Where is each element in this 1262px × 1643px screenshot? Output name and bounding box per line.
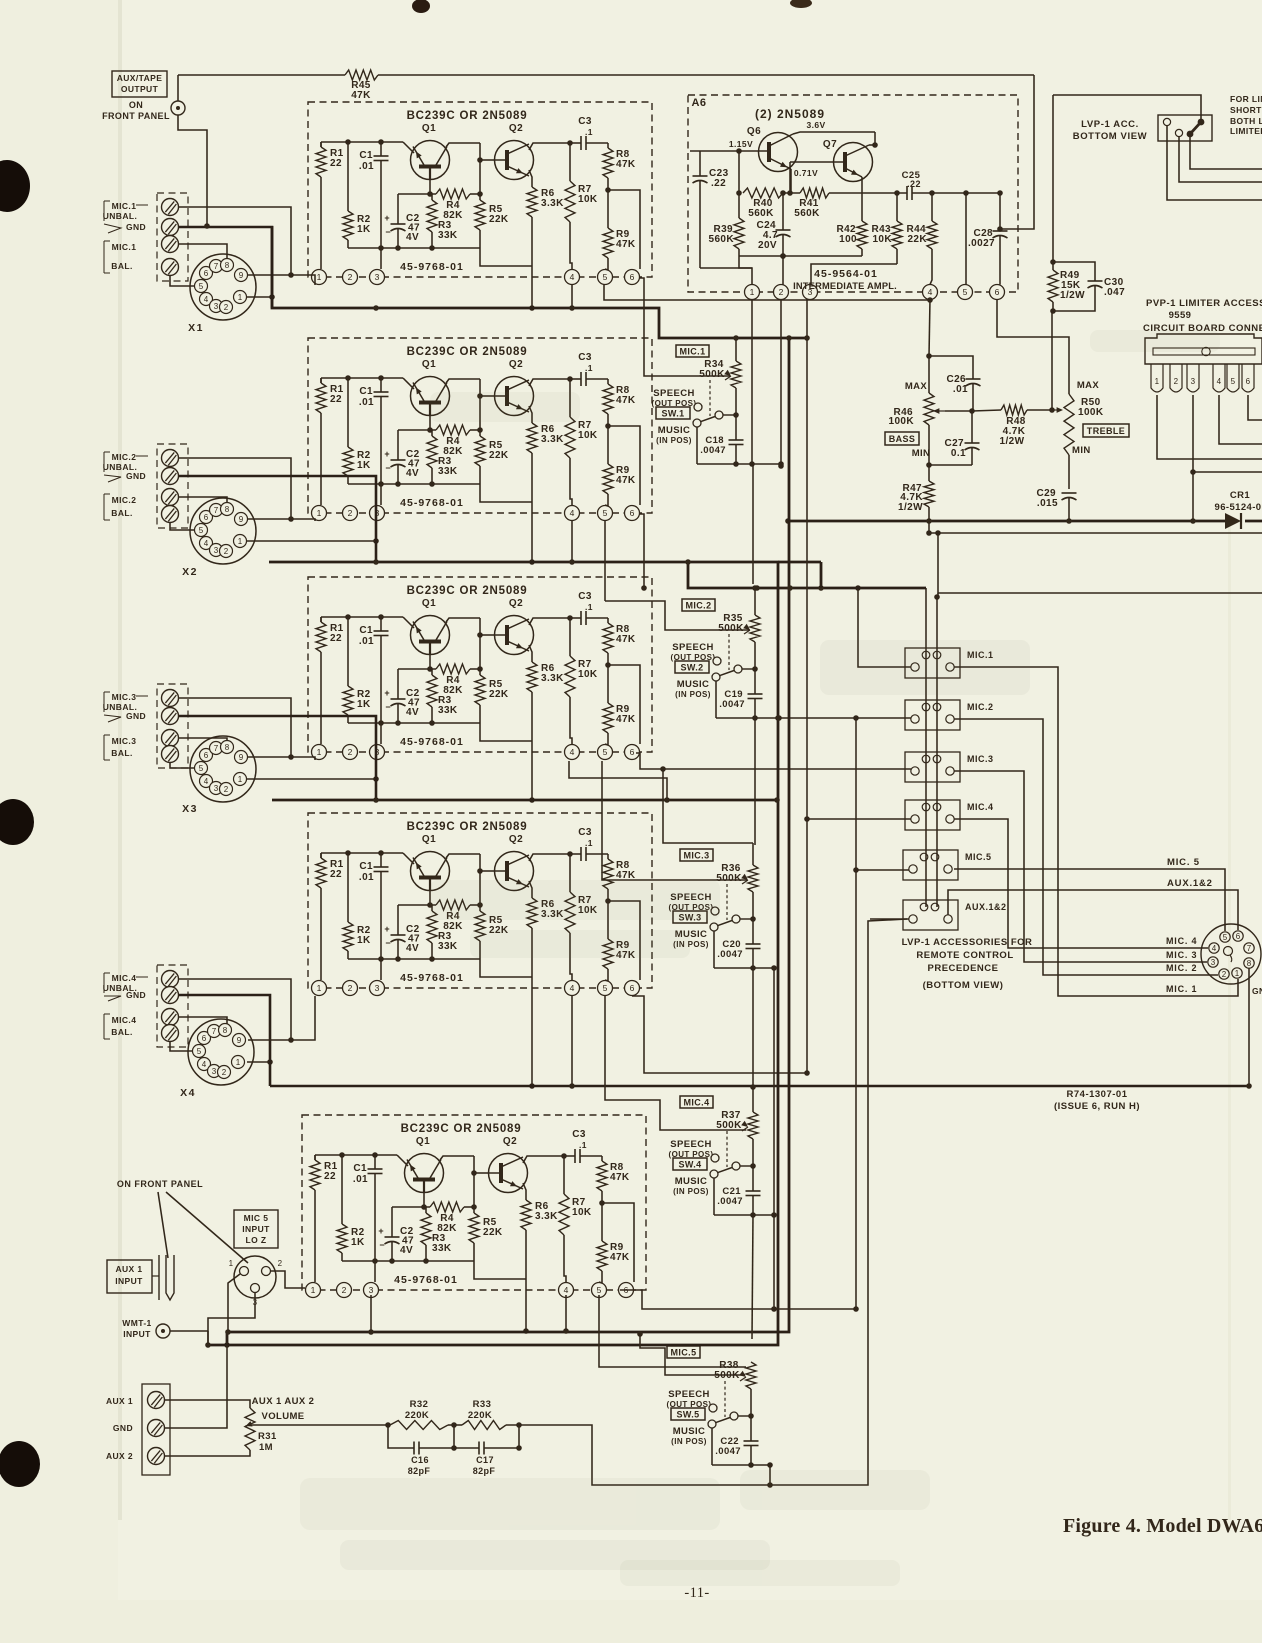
capacitor C22 .0047	[715, 1436, 758, 1465]
board pin 2 (board 2)	[343, 506, 358, 521]
label SPEECH (OUT POS) (channel 3)	[669, 892, 714, 912]
wire Q2 collector (board 2)	[529, 376, 581, 386]
X3 pin 6	[200, 749, 213, 762]
resistor R1 (board 1)	[316, 142, 344, 177]
terminal strip dashed box (input 4)	[157, 965, 188, 1047]
wire Q6 emitter to R40/R41 junction	[790, 169, 792, 193]
svg-text:5: 5	[1223, 933, 1228, 942]
label MUSIC (IN POS) (channel 2)	[675, 679, 711, 699]
wire AUX relay feed	[870, 918, 909, 920]
wire pin1 PVP drop	[1157, 395, 1262, 459]
wire pin4 PVP drop	[1219, 395, 1262, 444]
capacitor C2 (board 5)	[378, 1207, 414, 1261]
resistor R1 (board 4)	[316, 853, 344, 888]
capacitor C18 .0047	[700, 435, 743, 464]
svg-text:(IN POS): (IN POS)	[673, 1187, 709, 1196]
svg-text:MIC.1: MIC.1	[112, 201, 137, 211]
label MIC 5 INPUT LO Z box	[234, 1210, 278, 1248]
svg-text:BAL.: BAL.	[111, 748, 132, 758]
wire R8-R9 node (board 1)	[605, 178, 640, 269]
board pin 3 (board 1)	[370, 270, 385, 285]
wire R2 bottom (board 2)	[347, 476, 349, 484]
capacitor C20 .0047	[717, 939, 760, 968]
svg-text:5: 5	[597, 1285, 602, 1295]
wire volume output	[506, 919, 907, 1485]
resistor R7 (board 4)	[565, 854, 598, 933]
resistor R7 (board 5)	[559, 1156, 592, 1235]
A6 pin 2	[774, 285, 789, 300]
svg-text:1M: 1M	[259, 1442, 273, 1453]
wire LVP feed top	[1053, 95, 1201, 119]
wire gnd screw to bus (input 3)	[179, 716, 376, 800]
svg-text:500K: 500K	[718, 623, 744, 634]
svg-text:MIC.4: MIC.4	[112, 973, 137, 983]
svg-text:2: 2	[779, 287, 784, 297]
svg-text:500K: 500K	[699, 369, 725, 380]
wire MIC.4 relay feed	[632, 816, 911, 1076]
jack AUX1 symbol	[152, 1255, 174, 1300]
connector X4 body	[180, 1019, 254, 1099]
wire Q1 emitter to rail (board 2)	[403, 378, 414, 389]
board pin 1 (board 3)	[312, 745, 327, 760]
A6 pin 3	[803, 285, 818, 300]
screw terminal hot (input 4)	[162, 1009, 179, 1026]
switch SW.4 box	[673, 1158, 707, 1170]
wire pin9 to board pin 1 (input 4)	[248, 996, 315, 1040]
svg-text:47K: 47K	[616, 634, 636, 645]
wire block4 pin4 drop	[569, 996, 575, 1089]
wire block5 pin4 drop	[563, 1295, 569, 1334]
svg-text:MIC.3: MIC.3	[112, 692, 137, 702]
svg-text:SPEECH: SPEECH	[668, 1389, 709, 1400]
X1 pin 9	[235, 269, 248, 282]
screw terminal bal (input 3)	[162, 746, 179, 763]
A6 pin 1	[745, 285, 760, 300]
bus T3 step	[685, 559, 926, 591]
wire unbal screw to junction (input 4)	[179, 979, 294, 1043]
svg-text:C3: C3	[578, 116, 592, 127]
transistor Q6	[739, 126, 798, 172]
transistor Q7	[790, 139, 873, 182]
resistor R47 4.7K 1/2W	[898, 465, 934, 521]
resistor R1 (board 5)	[310, 1155, 338, 1190]
board pin 6 (board 4)	[625, 981, 640, 996]
resistor R2 (board 5)	[337, 1155, 365, 1253]
svg-text:8: 8	[225, 261, 230, 270]
wiper dashed line (channel 2)	[728, 634, 730, 670]
resistor R3 (board 3)	[427, 669, 458, 723]
wire interstage (board 4)	[477, 854, 494, 908]
svg-text:2: 2	[348, 272, 353, 282]
net label MIC. 3 (wire)	[1166, 950, 1197, 960]
switch SW.4 contacts	[710, 1154, 756, 1178]
net label MIC.4 box	[680, 1096, 713, 1108]
wire block1 pin5 line	[604, 285, 933, 303]
wire SW2 wiper to block2 pin5	[605, 601, 750, 630]
svg-text:1: 1	[317, 272, 322, 282]
svg-text:45-9768-01: 45-9768-01	[400, 972, 464, 984]
svg-text:(IN POS): (IN POS)	[656, 436, 692, 445]
precedence relay box AUX.1&2	[903, 900, 1007, 930]
figure caption	[1063, 1515, 1262, 1537]
svg-text:BAL.: BAL.	[111, 261, 132, 271]
wire A6 pin2 drop	[778, 299, 784, 469]
svg-text:+: +	[384, 688, 390, 698]
preamp board 4 title	[407, 821, 528, 833]
wire A6 mid row	[736, 151, 742, 196]
wire interstage (board 3)	[477, 618, 494, 672]
svg-text:1K: 1K	[357, 460, 371, 471]
svg-text:47K: 47K	[616, 475, 636, 486]
resistor R2 (board 2)	[343, 378, 371, 476]
svg-text:-11-: -11-	[684, 1585, 709, 1601]
wire R9 to pin 5 (board 1)	[605, 258, 608, 270]
net label MIC. 4 (wire)	[1166, 936, 1197, 946]
precedence relay box MIC.2	[905, 700, 994, 730]
X4 pin 6	[198, 1032, 211, 1045]
svg-text:C3: C3	[572, 1129, 586, 1140]
svg-text:10K: 10K	[872, 234, 892, 245]
svg-text:10K: 10K	[578, 430, 598, 441]
svg-text:100K: 100K	[1078, 407, 1104, 418]
preamp board 5 title	[401, 1123, 522, 1135]
wire Q2 emitter to R6 (board 1)	[529, 170, 532, 187]
wire Q2 emitter to R6 (board 3)	[529, 645, 532, 662]
capacitor C2 (board 1)	[384, 194, 420, 248]
label MUSIC (IN POS) (channel 5)	[671, 1426, 707, 1446]
label MUSIC (IN POS) (channel 4)	[673, 1176, 709, 1196]
svg-text:1K: 1K	[357, 935, 371, 946]
switch SW.5 box	[671, 1408, 705, 1420]
preamp board 3 title	[407, 585, 528, 597]
wire R1 to pin 1 (board 1)	[320, 142, 322, 269]
label AUX 1 INPUT box	[107, 1260, 152, 1293]
board pin 5 (board 3)	[598, 745, 613, 760]
svg-text:(IN POS): (IN POS)	[675, 690, 711, 699]
remote connector pin 4	[1209, 943, 1219, 953]
svg-text:C1: C1	[353, 1163, 367, 1174]
wire MIC.4 to connector	[954, 819, 1208, 948]
svg-text:4V: 4V	[400, 1245, 413, 1256]
wire base line (board 2)	[398, 429, 436, 431]
wire R9 to pin 5 (board 3)	[605, 733, 608, 745]
svg-text:Q2: Q2	[503, 1136, 517, 1147]
svg-text:TREBLE: TREBLE	[1087, 426, 1125, 436]
svg-text:3.3K: 3.3K	[541, 673, 564, 684]
capacitor C16 82pF	[388, 1425, 454, 1476]
resistor R5 (board 4)	[475, 905, 509, 959]
net label MIC.3 box	[680, 849, 713, 861]
svg-text:4: 4	[570, 272, 575, 282]
remote connector pin 7	[1244, 943, 1254, 953]
screw AUX 2	[106, 1448, 165, 1465]
svg-text:FRONT PANEL: FRONT PANEL	[102, 111, 170, 121]
svg-text:8: 8	[225, 743, 230, 752]
wire gnd screw to bus (input 4)	[179, 995, 270, 1086]
wire SW column link 1	[752, 464, 754, 584]
wire channel 3 bottom	[714, 965, 777, 971]
svg-text:MIC.3: MIC.3	[967, 754, 994, 764]
board pin 3 (board 2)	[370, 506, 385, 521]
wire AUX relay to connector	[948, 890, 1238, 930]
label MIC.4 BAL. (input 4)	[104, 1014, 136, 1039]
X2 pin 1	[234, 535, 247, 548]
board pin 4 (board 4)	[565, 981, 580, 996]
label SPEECH (OUT POS) (channel 1)	[652, 388, 697, 408]
label GND (input 3)	[104, 711, 146, 722]
scan artifacts: bleed-through ghosts	[300, 330, 1220, 1586]
switch SW.1 box	[656, 407, 690, 419]
wire channel 5 bottom	[712, 1462, 773, 1468]
svg-text:3: 3	[214, 784, 219, 793]
diode CR1	[1225, 513, 1241, 529]
wire top rail (board 4)	[321, 850, 403, 856]
svg-text:220K: 220K	[405, 1410, 429, 1421]
connector XLR MIC5	[229, 1256, 283, 1307]
svg-text:5: 5	[603, 272, 608, 282]
svg-text:MIC.2: MIC.2	[112, 452, 137, 462]
svg-text:2: 2	[348, 747, 353, 757]
svg-text:.0047: .0047	[717, 949, 743, 960]
resistor R4 (board 5)	[430, 1202, 474, 1234]
X2 pin 9	[235, 513, 248, 526]
wire bass wiper node	[945, 408, 975, 414]
remote connector pin 8	[1244, 958, 1254, 968]
svg-text:(ISSUE 6, RUN H): (ISSUE 6, RUN H)	[1054, 1101, 1140, 1112]
capacitor C17 82pF	[454, 1422, 522, 1476]
part number label (board 5)	[394, 1274, 458, 1286]
svg-text:3: 3	[214, 546, 219, 555]
wire R43 to pin 3 riser	[811, 264, 897, 285]
wire Q2 collector (board 5)	[523, 1153, 575, 1163]
wire block2 pin4 drop	[569, 521, 575, 565]
label LVP-1 accessories	[902, 937, 1033, 991]
svg-text:MIC. 4: MIC. 4	[1166, 936, 1197, 946]
screw AUX 1	[106, 1392, 165, 1409]
PVP circuit board connector body	[1145, 334, 1262, 364]
potentiometer R50 100K (treble)	[1064, 394, 1104, 489]
svg-text:Q1: Q1	[422, 123, 436, 134]
svg-text:5: 5	[963, 287, 968, 297]
wire pin1 to ground bus (input 1)	[247, 294, 275, 300]
board pin 2 (board 4)	[343, 981, 358, 996]
svg-text:BC239C OR 2N5089: BC239C OR 2N5089	[407, 346, 528, 358]
preamp board 2 title	[407, 346, 528, 358]
svg-text:FOR LIM: FOR LIM	[1230, 94, 1262, 104]
wiper dashed line (channel 3)	[726, 884, 728, 920]
potentiometer R35 500K	[718, 588, 760, 642]
X4 pin 7	[208, 1025, 221, 1038]
wire XLR pin2 to board5	[271, 1271, 305, 1288]
svg-text:10K: 10K	[572, 1207, 592, 1218]
resistor R3 (board 2)	[427, 430, 458, 484]
wire AUX gnd up	[165, 1345, 227, 1428]
wire A6 pin4 to bass pot	[926, 299, 932, 359]
svg-text:220K: 220K	[468, 1410, 492, 1421]
svg-text:3: 3	[1211, 958, 1216, 967]
label MIC.1 BAL. (input 1)	[104, 241, 136, 273]
connector X3 body	[182, 736, 256, 815]
svg-text:22K: 22K	[489, 214, 509, 225]
wire top rail (board 1)	[321, 139, 403, 145]
wire bal screw to pin5 (input 2)	[170, 523, 194, 530]
resistor R32 220K	[390, 1399, 448, 1430]
wire R7 to pin 4 (board 2)	[570, 458, 572, 505]
svg-text:−: −	[385, 938, 391, 948]
wire switch pole down (channel 4)	[713, 1178, 715, 1215]
wire bottom rail (board 5)	[342, 1258, 474, 1264]
wire SW bottoms riser	[771, 968, 777, 1312]
wire bal screw to pin5 (input 1)	[170, 276, 194, 286]
svg-text:2: 2	[224, 785, 229, 794]
wire Q1 collector up (board 2)	[446, 379, 480, 383]
svg-text:Q2: Q2	[509, 123, 523, 134]
wire switch pole down (channel 1)	[696, 427, 698, 464]
label SPEECH (OUT POS) (channel 5)	[667, 1389, 712, 1409]
screw terminal unbal (input 2)	[162, 450, 179, 467]
svg-text:.1: .1	[579, 1140, 587, 1150]
resistor R3 (board 4)	[427, 905, 458, 959]
wire base line (board 3)	[398, 668, 436, 670]
wire pin1 to ground bus (input 2)	[247, 538, 379, 544]
label LVP-1 ACC bottom view	[1073, 119, 1148, 142]
wire top bus left	[178, 74, 345, 76]
wire Q1 collector up (board 5)	[440, 1156, 474, 1160]
resistor R8 (board 4)	[603, 854, 636, 889]
svg-text:45-9564-01: 45-9564-01	[814, 268, 878, 280]
wire MIC.5 to connector	[954, 869, 1225, 931]
wire R1 to pin 1 (board 4)	[320, 853, 322, 980]
wire unbal screw to junction (input 1)	[179, 207, 294, 278]
svg-text:LIMITER: LIMITER	[1230, 126, 1262, 136]
svg-text:5: 5	[603, 983, 608, 993]
svg-text:47K: 47K	[616, 714, 636, 725]
wire treble feed from LVP	[1050, 95, 1056, 265]
wire SW3 pot feed	[660, 766, 753, 843]
board pin 5 (board 5)	[592, 1283, 607, 1298]
connector X1 body	[188, 254, 256, 334]
svg-text:INPUT: INPUT	[123, 1329, 151, 1339]
wire block5 pin5 to SW5	[599, 1295, 746, 1367]
screw terminal unbal (input 4)	[162, 971, 179, 988]
X2 pin 4	[200, 537, 213, 550]
wire block2 pin6 to bus	[639, 514, 647, 591]
svg-text:Figure 4. Model DWA6: Figure 4. Model DWA6	[1063, 1515, 1262, 1537]
svg-text:BAL.: BAL.	[111, 1027, 132, 1037]
wire gnd screw to bus (input 2)	[179, 476, 376, 562]
svg-text:−: −	[385, 702, 391, 712]
wire SW2 bottom riser	[853, 715, 859, 1309]
svg-text:5: 5	[197, 1047, 202, 1056]
svg-text:5: 5	[199, 282, 204, 291]
label MIN (treble)	[1072, 445, 1091, 456]
X2 pin 2	[220, 545, 233, 558]
switch SW.3 box	[673, 911, 707, 923]
capacitor C3 (board 3)	[578, 591, 608, 625]
wire Q2 collector (board 3)	[529, 615, 581, 625]
svg-text:MIC.2: MIC.2	[685, 600, 711, 610]
preamp board 4 dashed outline 45-9768-01	[308, 813, 652, 988]
resistor R7 (board 3)	[565, 618, 598, 697]
svg-text:BOTTOM VIEW: BOTTOM VIEW	[1073, 131, 1148, 142]
screw terminal unbal (input 3)	[162, 690, 179, 707]
jack WMT-1	[156, 1324, 170, 1338]
wire R2 bottom (board 3)	[347, 715, 349, 723]
svg-text:BASS: BASS	[889, 434, 916, 444]
wire Q1 emitter to rail (board 5)	[397, 1155, 408, 1166]
svg-text:4: 4	[202, 1060, 207, 1069]
transistor Q2 (board 3)	[495, 598, 534, 655]
A6 pin 4	[923, 285, 938, 300]
net label MIC. 2 (wire)	[1166, 963, 1197, 973]
svg-text:AUX 1: AUX 1	[115, 1264, 142, 1274]
svg-text:3: 3	[214, 302, 219, 311]
net label MIC.2 box	[682, 599, 715, 611]
svg-text:5: 5	[199, 764, 204, 773]
resistor R9 (board 1)	[603, 228, 636, 258]
LVP-1 ACC contacts	[1163, 118, 1204, 137]
X3 pin 5	[195, 762, 208, 775]
svg-text:MIN: MIN	[912, 448, 931, 459]
svg-text:INPUT: INPUT	[242, 1224, 270, 1234]
svg-text:MIC.4: MIC.4	[967, 802, 994, 812]
svg-text:4: 4	[928, 287, 933, 297]
svg-text:SW.1: SW.1	[661, 408, 684, 418]
precedence relay box MIC.1	[905, 648, 994, 678]
label GND (input 2)	[104, 471, 146, 482]
label ON FRONT PANEL (top)	[102, 100, 170, 121]
resistor R43	[871, 193, 902, 264]
svg-text:MUSIC: MUSIC	[675, 1176, 708, 1187]
svg-text:6: 6	[630, 747, 635, 757]
resistor R4 (board 2)	[436, 425, 480, 457]
X3 pin 4	[200, 775, 213, 788]
svg-text:A6: A6	[691, 97, 706, 109]
net label MIC. 1 (wire)	[1166, 984, 1197, 994]
X4 pin 2	[218, 1066, 231, 1079]
label MIN (bass)	[912, 448, 931, 459]
svg-text:9559: 9559	[1169, 310, 1192, 321]
resistor R8 (board 2)	[603, 379, 636, 414]
wire SW column link 2	[754, 718, 756, 845]
X4 pin 3	[208, 1065, 221, 1078]
wire pin5 riser	[965, 193, 967, 285]
svg-text:560K: 560K	[708, 234, 734, 245]
svg-text:82pF: 82pF	[408, 1466, 431, 1476]
PVP connector pin 5	[1227, 364, 1239, 392]
label GND (input 4)	[104, 990, 146, 1001]
board pin 3 (board 5)	[364, 1283, 379, 1298]
wire block1 pin4 drop	[569, 285, 575, 311]
wire R9 to pin 5 (board 4)	[605, 969, 608, 981]
board pin 6 (board 3)	[625, 745, 640, 760]
svg-text:.1: .1	[585, 363, 593, 373]
svg-text:REMOTE CONTROL: REMOTE CONTROL	[916, 950, 1013, 961]
svg-text:560K: 560K	[794, 208, 820, 219]
wire R7 to pin 4 (board 4)	[570, 933, 572, 980]
svg-text:−: −	[379, 1240, 385, 1250]
label MUSIC (IN POS) (channel 3)	[673, 929, 709, 949]
svg-text:MIC.3: MIC.3	[683, 850, 709, 860]
svg-text:6: 6	[204, 513, 209, 522]
svg-text:7: 7	[214, 506, 219, 515]
preamp board 3 dashed outline 45-9768-01	[308, 577, 652, 752]
svg-text:SW.5: SW.5	[676, 1409, 699, 1419]
resistor R9 (board 2)	[603, 464, 636, 494]
svg-text:Q1: Q1	[422, 598, 436, 609]
svg-text:6: 6	[630, 508, 635, 518]
wire R1 to pin 1 (board 5)	[314, 1155, 316, 1282]
